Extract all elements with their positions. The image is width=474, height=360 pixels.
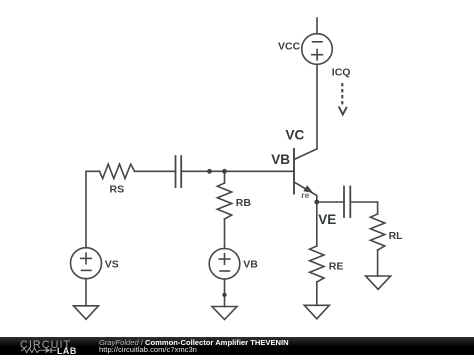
- transistor Q1 collector stroke: [294, 149, 317, 160]
- svg-text:VCC: VCC: [278, 40, 301, 52]
- wire RB branch: [224, 171, 226, 183]
- current probe ICQ dashed arrow: [341, 83, 343, 107]
- transistor Q1 (NPN) base bar: [293, 149, 295, 194]
- voltage source VCC: [302, 34, 333, 65]
- capacitor C1: [175, 156, 177, 187]
- svg-text:re: re: [301, 190, 309, 200]
- node junction dot below VB: [222, 293, 226, 297]
- node (junction dot) on base wire: [207, 169, 212, 174]
- node (junction dot) RB tap: [222, 169, 227, 174]
- wire emitter node down: [316, 202, 318, 246]
- wire C1 to base: [181, 170, 294, 172]
- wire VS to ground: [85, 279, 87, 306]
- svg-text:VB: VB: [271, 152, 290, 167]
- wire emitter node to C2: [317, 201, 344, 203]
- ground (VB): [212, 307, 237, 320]
- CircuitLab logo: [19, 337, 85, 355]
- svg-text:ICQ: ICQ: [332, 67, 351, 79]
- voltage source VS: [71, 248, 102, 279]
- svg-text:VS: VS: [105, 259, 119, 271]
- resistor RS: [100, 164, 135, 178]
- wire VB to ground: [224, 279, 226, 306]
- svg-text:VE: VE: [318, 212, 336, 227]
- transistor Q1 emitter arrow: [303, 185, 313, 193]
- svg-text:RL: RL: [389, 230, 404, 242]
- footer title text: [99, 339, 289, 353]
- wire VS to node corner: [86, 171, 100, 248]
- resistor RB: [217, 183, 231, 219]
- svg-text:VB: VB: [243, 259, 258, 271]
- wire RL to ground: [377, 250, 379, 276]
- resistor RL: [370, 214, 384, 250]
- ground (RE): [304, 305, 329, 319]
- svg-text:RS: RS: [110, 184, 125, 196]
- wire RE to ground: [316, 282, 318, 305]
- ground (VS): [74, 306, 99, 320]
- wire top stub above VCC: [316, 18, 318, 34]
- svg-text:VC: VC: [286, 128, 305, 143]
- node VE junction dot: [314, 200, 319, 205]
- svg-text:RB: RB: [236, 197, 252, 209]
- wire C2 to RL: [350, 202, 377, 214]
- svg-text:RE: RE: [329, 260, 344, 272]
- wire VCC to collector: [316, 64, 318, 149]
- resistor RE: [310, 246, 324, 282]
- wire RB to VB source: [224, 219, 226, 249]
- transistor Q1 emitter stroke: [294, 182, 317, 202]
- capacitor C2: [343, 187, 345, 218]
- svg-text:LAB: LAB: [57, 346, 77, 355]
- ground (RL): [366, 276, 391, 289]
- wire RS to C1: [135, 170, 176, 172]
- footer bar: [0, 337, 474, 355]
- voltage source VB: [209, 248, 240, 279]
